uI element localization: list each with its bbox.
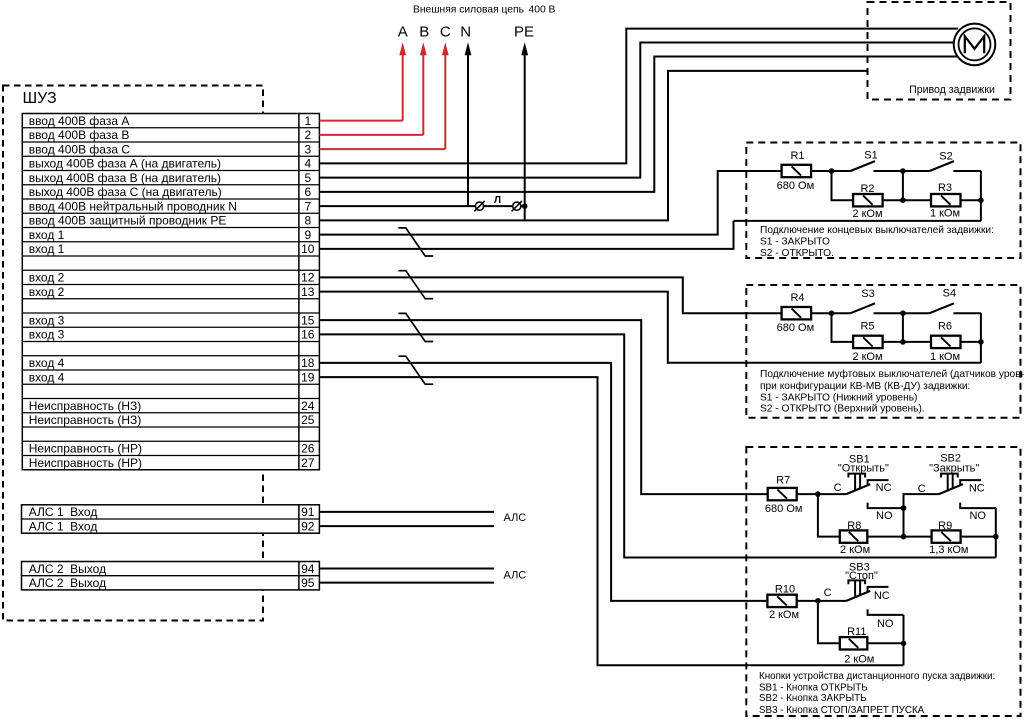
svg-text:1 кОм: 1 кОм — [930, 208, 960, 220]
wire S-node down — [902, 171, 904, 200]
svg-text:ввод 400В нейтральный проводни: ввод 400В нейтральный проводник N — [29, 199, 237, 213]
svg-text:выход 400В фаза С (на двигател: выход 400В фаза С (на двигатель) — [29, 185, 222, 199]
node C of SB1 — [815, 491, 821, 497]
wire phase B (terminal 2) — [319, 42, 426, 135]
wire motor phase C (terminal 6) — [319, 57, 958, 192]
svg-text:R8: R8 — [847, 520, 861, 532]
svg-text:C: C — [918, 483, 926, 495]
wire S3-node down — [902, 313, 904, 342]
switch S1 — [832, 161, 903, 171]
svg-text:вход 1: вход 1 — [29, 242, 65, 256]
actuator dashed enclosure (Привод задвижки) — [868, 2, 1011, 100]
node R6 output — [978, 339, 984, 345]
wire S4 return down — [980, 313, 982, 363]
wire terminal 9 to R1 input — [319, 171, 781, 235]
dashed box: remote start buttons — [746, 447, 1020, 716]
svg-text:19: 19 — [301, 370, 315, 384]
wire R5 out — [883, 341, 903, 343]
svg-text:R2: R2 — [860, 183, 874, 195]
svg-text:R3: R3 — [938, 182, 952, 194]
svg-text:Кнопки устройства дистанционно: Кнопки устройства дистанционного пуска з… — [759, 671, 995, 682]
node R11 output — [901, 641, 907, 647]
cable mark pair 18/19 — [398, 356, 433, 384]
svg-text:S1 - ЗАКРЫТО: S1 - ЗАКРЫТО — [760, 236, 830, 247]
note box1 — [760, 225, 994, 259]
svg-text:R4: R4 — [790, 292, 804, 304]
svg-text:12: 12 — [301, 271, 315, 285]
wire motor phase A (terminal 4) — [319, 29, 958, 164]
svg-text:R6: R6 — [938, 321, 952, 333]
svg-text:"Открыть": "Открыть" — [838, 462, 889, 474]
svg-text:2 кОм: 2 кОм — [840, 544, 870, 556]
svg-text:1: 1 — [304, 114, 311, 128]
svg-text:2 кОм: 2 кОм — [852, 208, 882, 220]
svg-text:вход 3: вход 3 — [29, 328, 65, 342]
node S1/S2 — [900, 168, 906, 174]
svg-text:7: 7 — [304, 199, 311, 213]
wire R3 out — [961, 199, 981, 201]
svg-text:NC: NC — [969, 483, 985, 495]
svg-text:Неисправность (НЗ): Неисправность (НЗ) — [29, 399, 142, 413]
svg-text:PE: PE — [514, 24, 534, 41]
svg-text:NC: NC — [874, 590, 890, 602]
svg-text:10: 10 — [301, 242, 315, 256]
svg-text:"Стоп": "Стоп" — [845, 570, 878, 582]
resistor R5 — [853, 336, 883, 348]
svg-text:S3: S3 — [861, 288, 874, 300]
dashed box: clutch/level switches — [746, 285, 1020, 418]
dashed box: limit switches of valve — [746, 143, 1020, 259]
wire АЛС1 b (terminal 92) — [319, 525, 494, 527]
wire node to R9 — [904, 536, 932, 538]
wire SB3 node down to R11 — [818, 601, 840, 643]
svg-text:95: 95 — [301, 576, 315, 590]
svg-text:АЛС 1 Вход: АЛС 1 Вход — [29, 519, 98, 533]
junction N-link to PE riser — [522, 203, 528, 209]
wire box1 bottom return — [734, 220, 981, 222]
svg-text:вход 4: вход 4 — [29, 370, 65, 384]
svg-text:S2 - ОТКРЫТО.: S2 - ОТКРЫТО. — [760, 248, 834, 259]
svg-text:ввод 400В фаза С: ввод 400В фаза С — [29, 142, 131, 156]
wire terminal 15 to R7 input — [319, 320, 767, 494]
wire terminal 18 to R10 input — [319, 363, 767, 601]
svg-text:3: 3 — [304, 142, 311, 156]
svg-text:вход 2: вход 2 — [29, 285, 65, 299]
resistor R4 — [782, 307, 812, 319]
wire S2 return down — [980, 171, 982, 221]
svg-text:ввод 400В фаза А: ввод 400В фаза А — [29, 114, 130, 128]
wire R11 out — [867, 642, 903, 644]
svg-text:24: 24 — [301, 399, 315, 413]
svg-text:91: 91 — [301, 505, 315, 519]
svg-text:A: A — [398, 24, 408, 41]
motor M1 — [954, 24, 996, 66]
svg-text:выход 400В фаза А (на двигател: выход 400В фаза А (на двигатель) — [29, 157, 221, 171]
svg-text:25: 25 — [301, 413, 315, 427]
wire PE riser — [521, 42, 528, 220]
svg-text:NC: NC — [876, 482, 892, 494]
svg-text:680 Ом: 680 Ом — [765, 503, 803, 515]
svg-text:15: 15 — [301, 313, 315, 327]
svg-text:АЛС 2 Выход: АЛС 2 Выход — [29, 562, 106, 576]
wire R1 to node — [811, 170, 831, 172]
svg-text:2: 2 — [304, 128, 311, 142]
svg-text:NO: NO — [877, 618, 894, 630]
svg-text:Подключение концевых выключате: Подключение концевых выключателей задвиж… — [760, 225, 994, 236]
svg-text:8: 8 — [304, 214, 311, 228]
svg-text:26: 26 — [301, 442, 315, 456]
resistor R3 — [931, 194, 961, 206]
svg-text:R1: R1 — [790, 150, 804, 162]
resistor R6 — [931, 336, 961, 348]
pushbutton SB2 — [939, 474, 996, 509]
wire node to R3 — [903, 199, 931, 201]
wire SB1 node down to R8 — [818, 494, 840, 536]
wire motor phase B (terminal 5) — [319, 43, 956, 178]
wire phase A (terminal 1) — [319, 42, 406, 120]
svg-text:1,3 кОм: 1,3 кОм — [929, 544, 968, 556]
svg-text:ввод 400В защитный проводник Р: ввод 400В защитный проводник РЕ — [29, 214, 227, 228]
wire АЛС2 a (terminal 94) — [319, 568, 494, 570]
wire R10 to node — [797, 600, 818, 602]
svg-text:Неисправность (НР): Неисправность (НР) — [29, 456, 142, 470]
switch S3 — [832, 303, 903, 313]
wire R2 out — [883, 199, 903, 201]
cable mark pair 15/16 — [398, 313, 433, 341]
node SB1 NO junction — [901, 505, 907, 511]
svg-text:выход 400В фаза В (на двигател: выход 400В фаза В (на двигатель) — [29, 171, 221, 185]
wire terminal 12 to R4 input — [319, 277, 781, 313]
svg-text:вход 3: вход 3 — [29, 313, 65, 327]
wire node to R5 — [832, 313, 854, 342]
svg-text:вход 4: вход 4 — [29, 356, 65, 370]
svg-text:C: C — [834, 482, 842, 494]
wire АЛС1 a (terminal 91) — [319, 511, 494, 513]
svg-text:S1: S1 — [864, 149, 877, 161]
wire terminal 13 to box2 return — [319, 292, 981, 363]
svg-text:27: 27 — [301, 456, 315, 470]
wire PE to actuator (terminal 8) — [319, 71, 867, 220]
svg-text:Неисправность (НЗ): Неисправность (НЗ) — [29, 413, 142, 427]
node C of SB3 — [815, 598, 821, 604]
svg-text:B: B — [419, 24, 429, 41]
svg-text:NO: NO — [969, 510, 986, 522]
node R9 output — [993, 534, 999, 540]
svg-text:S2: S2 — [939, 150, 952, 162]
wire terminal 10 to box1 return — [319, 221, 733, 249]
cable mark pair 9/10 — [398, 228, 433, 256]
svg-text:АЛС 1 Вход: АЛС 1 Вход — [29, 505, 98, 519]
svg-text:ввод 400В фаза В: ввод 400В фаза В — [29, 128, 130, 142]
wire R7 to node — [797, 493, 818, 495]
wire node to R6 — [903, 341, 931, 343]
pushbutton SB3 — [846, 580, 903, 615]
svg-text:R9: R9 — [938, 520, 952, 532]
svg-text:R11: R11 — [847, 626, 866, 638]
wire R8 out — [867, 536, 903, 538]
wire SB2 NO down to return — [995, 508, 997, 557]
svg-text:Внешняя силовая цепь: Внешняя силовая цепь — [413, 4, 524, 15]
svg-text:400 В: 400 В — [529, 4, 556, 15]
svg-text:16: 16 — [301, 328, 315, 342]
svg-text:6: 6 — [304, 185, 311, 199]
wire node to SB3 pivot — [818, 600, 846, 602]
svg-text:4: 4 — [304, 157, 311, 171]
pushbutton SB1 — [846, 474, 903, 509]
svg-text:Л: Л — [494, 195, 501, 206]
svg-text:2 кОм: 2 кОм — [769, 609, 799, 621]
svg-text:вход 2: вход 2 — [29, 271, 65, 285]
wire АЛС2 b (terminal 95) — [319, 582, 494, 584]
svg-text:АЛС 2 Выход: АЛС 2 Выход — [29, 576, 106, 590]
wire node to SB1 pivot — [818, 493, 846, 495]
svg-text:R5: R5 — [860, 321, 874, 333]
node after R1 — [829, 168, 835, 174]
resistor R11 — [840, 637, 868, 649]
svg-text:S4: S4 — [943, 287, 956, 299]
wire node to R2 — [832, 171, 854, 200]
node S3/S4 — [900, 310, 906, 316]
svg-text:S1 - ЗАКРЫТО (Нижний уровень): S1 - ЗАКРЫТО (Нижний уровень) — [760, 392, 917, 403]
resistor R9 — [932, 530, 961, 542]
svg-text:АЛС: АЛС — [504, 512, 527, 524]
resistor R1 — [782, 165, 812, 177]
svg-text:680 Ом: 680 Ом — [777, 322, 815, 334]
wire neutral N (terminal 7) — [319, 42, 471, 206]
terminal block АЛС 1 (pins 91,92) — [22, 505, 320, 534]
node R3 output — [978, 197, 984, 203]
svg-text:Подключение муфтовых выключате: Подключение муфтовых выключателей (датчи… — [760, 368, 1024, 380]
wire R6 out — [961, 341, 981, 343]
wire terminal 19 to box3 return 2 — [319, 377, 903, 665]
svg-text:вход 1: вход 1 — [29, 228, 65, 242]
svg-text:92: 92 — [301, 519, 315, 533]
svg-text:9: 9 — [304, 228, 311, 242]
svg-text:при конфигурации КВ-МВ (КВ-ДУ): при конфигурации КВ-МВ (КВ-ДУ) задвижки: — [760, 380, 970, 392]
svg-text:Неисправность (НР): Неисправность (НР) — [29, 442, 142, 456]
svg-text:1 кОм: 1 кОм — [930, 351, 960, 363]
terminal block of ШУЗ (pins 1-27) — [22, 114, 319, 470]
wire phase C (terminal 3) — [319, 42, 448, 149]
node R8/R9 — [901, 534, 907, 540]
terminal block АЛС 2 (pins 94,95) — [22, 562, 320, 590]
node after R4 — [829, 310, 835, 316]
wire SB3 NO down to return — [903, 615, 905, 665]
node R5/R6 — [900, 339, 906, 345]
svg-text:R10: R10 — [775, 583, 795, 595]
note box3 — [759, 671, 995, 716]
svg-text:SB3 - Кнопка СТОП/ЗАПРЕТ ПУСКА: SB3 - Кнопка СТОП/ЗАПРЕТ ПУСКА — [759, 705, 925, 716]
cabinet ШУЗ dashed enclosure — [3, 86, 263, 621]
svg-text:R7: R7 — [776, 475, 790, 487]
resistor R10 — [767, 595, 796, 607]
switch S4 — [903, 303, 981, 313]
node R2/R3 — [900, 197, 906, 203]
svg-text:680 Ом: 680 Ом — [777, 180, 815, 192]
wire riser SB2 feed — [904, 494, 939, 536]
svg-text:Привод задвижки: Привод задвижки — [909, 84, 995, 96]
svg-text:13: 13 — [301, 285, 315, 299]
resistor R2 — [853, 194, 883, 206]
svg-text:NO: NO — [876, 510, 893, 522]
svg-text:5: 5 — [304, 171, 311, 185]
svg-text:C: C — [440, 24, 451, 41]
svg-text:18: 18 — [301, 356, 315, 370]
svg-text:N: N — [460, 24, 471, 41]
resistor R7 — [768, 488, 797, 500]
svg-text:"Закрыть": "Закрыть" — [929, 462, 979, 474]
svg-text:ШУЗ: ШУЗ — [23, 90, 57, 107]
svg-text:C: C — [824, 587, 832, 599]
N-PE removable link Л with terminals — [468, 201, 525, 211]
svg-text:94: 94 — [301, 562, 315, 576]
wire terminal 16 to box3 return 1 — [319, 334, 995, 557]
svg-text:АЛС: АЛС — [504, 570, 527, 582]
wire R9 out — [961, 536, 996, 538]
switch S2 — [903, 161, 981, 171]
wire R4 to node — [811, 312, 831, 314]
svg-text:SB2 - Кнопка ЗАКРЫТЬ: SB2 - Кнопка ЗАКРЫТЬ — [759, 693, 867, 704]
svg-text:2 кОм: 2 кОм — [852, 351, 882, 363]
svg-text:2 кОм: 2 кОм — [844, 653, 874, 665]
cable mark pair 12/13 — [398, 271, 433, 299]
svg-text:S2 - ОТКРЫТО (Верхний уровень): S2 - ОТКРЫТО (Верхний уровень). — [760, 403, 925, 414]
resistor R8 — [840, 530, 868, 542]
svg-text:SB1 - Кнопка ОТКРЫТЬ: SB1 - Кнопка ОТКРЫТЬ — [759, 683, 868, 694]
note box2 — [760, 368, 1024, 414]
